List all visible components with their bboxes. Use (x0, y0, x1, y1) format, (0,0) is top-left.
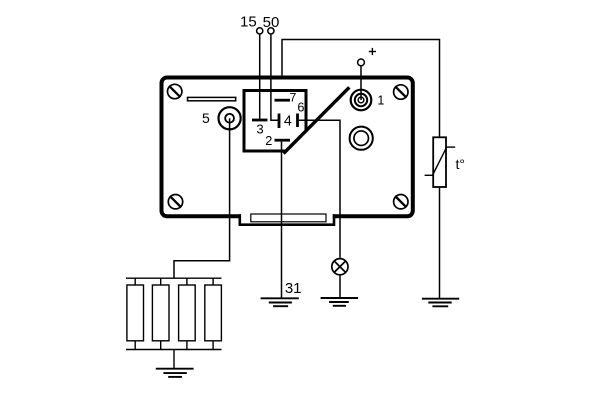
svg-text:1: 1 (377, 93, 384, 107)
svg-text:2: 2 (265, 134, 272, 148)
pin 6 (296, 114, 299, 128)
connector tab gap in bottom border (241, 214, 333, 220)
wire lamp to ground (339, 276, 341, 298)
glow plug 2 (152, 278, 169, 349)
wire plugs to ground (173, 350, 175, 369)
screw top-right (394, 85, 408, 99)
plus sign (369, 48, 376, 55)
connector tab slot (251, 214, 326, 222)
svg-text:50: 50 (263, 14, 280, 31)
wire 15 to pin 3 (259, 35, 261, 119)
glow plug 3 (179, 278, 196, 349)
screw bottom-left (168, 195, 182, 209)
pin 7 (275, 99, 291, 102)
svg-text:t°: t° (456, 156, 466, 172)
svg-text:4: 4 (284, 114, 292, 130)
svg-text:7: 7 (289, 90, 296, 104)
screw top-left (168, 84, 182, 98)
terminal 15 (257, 28, 263, 34)
wire pin 2 to ground 31 (281, 142, 283, 298)
unlabeled terminal below 1 (350, 127, 373, 150)
connector tab outline (240, 214, 334, 225)
wire from terminal 50 node to thermistor (top-right loop) (282, 40, 440, 137)
terminal 1 (351, 90, 372, 111)
glow plug bank bottom bus (126, 349, 222, 351)
ground 31 (261, 298, 299, 306)
relay box body (162, 78, 413, 217)
wire thermistor to ground (439, 188, 441, 298)
screw bottom-right (394, 195, 408, 209)
terminal 5 (219, 107, 241, 129)
ground thermistor (422, 299, 459, 307)
glow plug bank top bus (126, 277, 222, 279)
wire pin 6 to lamp (299, 120, 340, 258)
glow plug 4 (205, 278, 222, 349)
plus terminal (358, 59, 365, 66)
ground glow plugs (156, 369, 194, 377)
svg-text:3: 3 (256, 122, 263, 137)
pin 2 (275, 139, 291, 142)
connector outline (244, 91, 306, 152)
ground lamp (321, 298, 359, 306)
svg-text:15: 15 (240, 13, 257, 30)
svg-text:5: 5 (202, 110, 210, 126)
wire terminal 5 to glow plugs (174, 118, 230, 278)
terminal 50 (268, 28, 274, 34)
slot bar (188, 97, 236, 100)
thermistor t° (425, 137, 456, 187)
wire plus to terminal 1 (360, 66, 362, 100)
pin 3 (252, 119, 268, 122)
svg-text:6: 6 (297, 101, 304, 115)
svg-text:31: 31 (285, 280, 302, 297)
glow plug 1 (127, 278, 144, 349)
connector corner diagonal (284, 87, 350, 153)
indicator lamp (332, 259, 348, 275)
pin 4 (278, 114, 281, 129)
wire 50 to pin 4 (271, 35, 278, 121)
